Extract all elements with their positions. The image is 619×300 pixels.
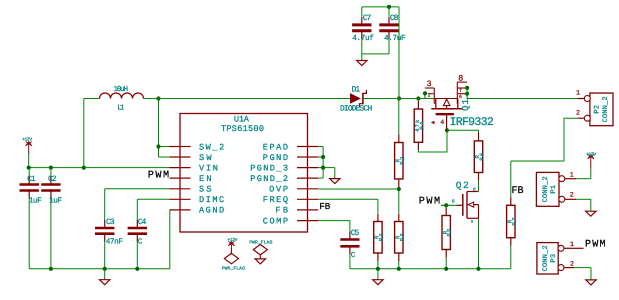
svg-text:R6: R6 (479, 152, 486, 161)
svg-text:C3: C3 (106, 218, 115, 227)
svg-text:DIODESCH: DIODESCH (340, 105, 372, 114)
svg-text:4.7uf: 4.7uf (352, 34, 374, 43)
svg-text:2: 2 (570, 260, 574, 268)
svg-text:FB: FB (319, 201, 331, 212)
svg-text:P2: P2 (594, 105, 602, 114)
svg-text:2: 2 (576, 109, 580, 117)
svg-text:PGND: PGND (263, 153, 288, 163)
svg-text:1: 1 (570, 172, 574, 180)
svg-text:4: 4 (440, 119, 444, 127)
svg-text:PWM: PWM (148, 171, 169, 182)
svg-text:PGND_2: PGND_2 (250, 174, 288, 184)
svg-text:R7: R7 (511, 217, 518, 226)
svg-text:PGND_3: PGND_3 (250, 163, 288, 173)
svg-text:IRF9332: IRF9332 (450, 116, 494, 129)
svg-text:P3: P3 (550, 254, 558, 263)
svg-text:47nF: 47nF (106, 237, 124, 246)
svg-text:10uH: 10uH (114, 85, 129, 94)
svg-text:R2: R2 (399, 156, 406, 165)
svg-text:G: G (452, 198, 455, 204)
svg-text:R4: R4 (418, 121, 425, 130)
svg-text:PWR_FLAG: PWR_FLAG (222, 266, 245, 272)
svg-text:DIMC: DIMC (199, 195, 224, 205)
svg-text:C8: C8 (390, 14, 399, 23)
svg-text:SW_2: SW_2 (199, 142, 224, 152)
svg-text:R3: R3 (399, 233, 406, 242)
svg-text:1: 1 (570, 241, 574, 249)
svg-text:EPAD: EPAD (263, 142, 288, 152)
svg-text:D1: D1 (352, 85, 361, 94)
svg-text:2: 2 (570, 191, 574, 199)
svg-text:OVP: OVP (269, 185, 288, 195)
svg-text:d: d (473, 187, 476, 193)
svg-text:1: 1 (576, 90, 580, 98)
svg-text:L1: L1 (117, 104, 125, 112)
svg-text:R5: R5 (446, 228, 453, 237)
svg-text:P1: P1 (550, 185, 558, 194)
svg-text:CONN_2: CONN_2 (542, 245, 550, 271)
svg-text:4.7uF: 4.7uF (384, 34, 406, 43)
svg-text:C4: C4 (138, 218, 147, 227)
svg-text:AGND: AGND (199, 206, 224, 216)
svg-text:Q2: Q2 (456, 180, 469, 191)
svg-text:+12V: +12V (586, 152, 596, 158)
svg-text:C: C (351, 251, 356, 260)
svg-text:2: 2 (428, 93, 431, 99)
svg-text:FREQ: FREQ (263, 195, 288, 205)
svg-text:1uF: 1uF (49, 197, 62, 206)
svg-text:C5: C5 (351, 229, 360, 238)
svg-text:PWM: PWM (419, 197, 440, 208)
svg-text:C2: C2 (48, 175, 57, 184)
svg-text:TPS61500: TPS61500 (221, 124, 264, 134)
svg-text:C7: C7 (363, 14, 372, 23)
svg-text:7: 7 (459, 88, 462, 94)
svg-text:Q1: Q1 (461, 99, 471, 111)
svg-text:s: s (471, 220, 474, 225)
svg-text:CONN_2: CONN_2 (542, 176, 550, 202)
svg-text:C1: C1 (27, 175, 36, 184)
svg-text:1uF: 1uF (29, 197, 42, 206)
svg-text:C: C (138, 237, 143, 246)
svg-text:SW: SW (199, 153, 212, 163)
svg-text:COMP: COMP (263, 216, 288, 226)
svg-text:VIN: VIN (199, 163, 218, 173)
svg-text:CONN_2: CONN_2 (602, 96, 610, 122)
svg-text:FB: FB (512, 186, 524, 197)
svg-text:PWM: PWM (585, 240, 606, 251)
svg-text:R1: R1 (378, 233, 385, 242)
